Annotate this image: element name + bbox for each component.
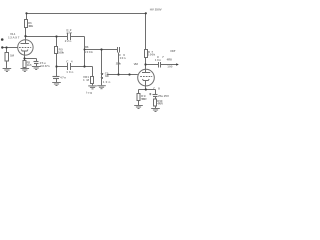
svg-text:10n: 10n xyxy=(120,56,126,60)
svg-text:OUT: OUT xyxy=(170,49,176,53)
svg-text:1M: 1M xyxy=(10,53,15,57)
svg-text:100: 100 xyxy=(167,65,173,69)
svg-text:1M: 1M xyxy=(83,78,90,82)
svg-text:1k5: 1k5 xyxy=(27,63,32,67)
svg-text:22n: 22n xyxy=(65,39,72,43)
svg-text:100k: 100k xyxy=(58,51,64,55)
svg-text:C4: C4 xyxy=(66,59,73,63)
svg-text:100k: 100k xyxy=(148,53,156,57)
svg-text:560R: 560R xyxy=(141,97,147,101)
svg-text:10n: 10n xyxy=(66,70,73,74)
svg-text:log: log xyxy=(86,91,92,95)
svg-text:R6: R6 xyxy=(85,45,89,49)
svg-text:C3 47n: C3 47n xyxy=(40,64,50,68)
svg-text:10n: 10n xyxy=(155,58,161,62)
svg-text:V1.2: V1.2 xyxy=(134,62,139,66)
svg-text:1n5: 1n5 xyxy=(105,74,109,78)
svg-text:22n: 22n xyxy=(66,31,72,35)
svg-text:HV 250V: HV 250V xyxy=(150,7,162,11)
svg-text:12AX7: 12AX7 xyxy=(8,35,20,39)
svg-text:10n: 10n xyxy=(103,80,111,84)
svg-text:25u 25V: 25u 25V xyxy=(158,94,169,98)
svg-text:100k: 100k xyxy=(84,50,93,54)
svg-text:220k: 220k xyxy=(116,62,122,66)
svg-text:4R8: 4R8 xyxy=(167,57,173,61)
svg-text:100k: 100k xyxy=(28,24,33,28)
svg-text:470R: 470R xyxy=(157,102,163,106)
svg-text:C8: C8 xyxy=(153,86,160,90)
svg-text:47n: 47n xyxy=(60,75,66,79)
